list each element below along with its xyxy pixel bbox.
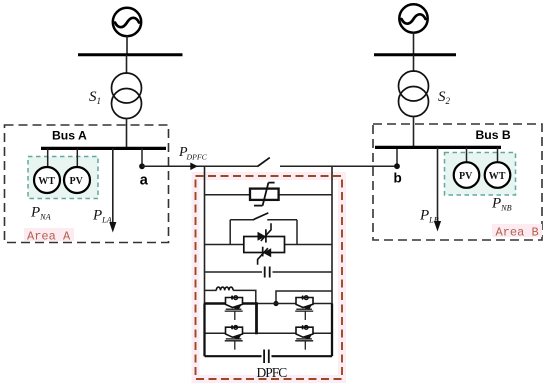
svg-text:b: b <box>394 171 402 186</box>
main wire a to switch <box>142 165 257 167</box>
bridge row2 wire <box>205 332 333 334</box>
wire T1 to Bus A <box>126 119 128 149</box>
node b dot <box>394 163 400 169</box>
series capacitor C1 <box>262 265 273 279</box>
bridge row1 wire <box>205 303 333 305</box>
wire G2 to bar <box>413 33 415 55</box>
IGBT Q2 <box>295 295 313 320</box>
node b stub <box>396 147 398 166</box>
svg-text:PV: PV <box>459 171 473 182</box>
svg-text:DPFC: DPFC <box>257 365 288 380</box>
DPFC right rail <box>331 166 333 304</box>
varistor RV <box>250 183 279 206</box>
load arrow P_LB <box>434 147 441 231</box>
wire to WT B <box>497 147 499 163</box>
right AC wire <box>276 291 332 304</box>
IGBT Q3 <box>225 325 243 350</box>
IGBT Q4 <box>295 325 313 350</box>
DPFC left rail <box>204 166 206 304</box>
renewables box B <box>445 153 516 196</box>
renewables box A <box>28 157 98 199</box>
load arrow P_LA <box>109 148 116 232</box>
Bus B bar <box>375 146 501 149</box>
svg-text:a: a <box>140 172 149 188</box>
bus bar top-left <box>78 53 183 56</box>
wire coil to mid bar <box>233 290 256 303</box>
label Area A <box>24 228 74 241</box>
bridge mid bar <box>255 302 258 334</box>
wire T2 to Bus B <box>413 117 415 148</box>
node a stub <box>141 148 143 166</box>
junction dot bridge <box>273 301 278 306</box>
svg-text:WT: WT <box>38 176 55 187</box>
PV source B <box>454 162 480 188</box>
svg-text:DPFC: DPFC <box>186 152 208 161</box>
node a dot <box>139 163 145 169</box>
svg-text:PV: PV <box>70 176 84 187</box>
wire to WT <box>47 148 49 167</box>
svg-text:Bus B: Bus B <box>476 128 511 142</box>
coil branch wire <box>205 289 217 291</box>
svg-text:Area A: Area A <box>27 230 71 244</box>
transformer T1 <box>112 73 142 119</box>
PV source <box>64 167 90 193</box>
thyristor branch wire <box>205 244 333 246</box>
label Area B <box>492 224 542 237</box>
bridge bottom rail <box>205 355 333 357</box>
DC capacitor C2 <box>262 350 272 364</box>
WT source B <box>485 162 511 188</box>
wire bar to T1 <box>126 55 128 74</box>
svg-text:WT: WT <box>489 171 506 182</box>
bypass switch SW <box>230 213 297 245</box>
bridge right vertical <box>331 304 333 357</box>
varistor branch wire <box>205 194 333 196</box>
wire bar to T2 <box>413 55 415 72</box>
transformer T2 <box>399 71 429 117</box>
thyristor top <box>258 223 272 242</box>
generator G1 <box>113 8 141 36</box>
capacitor branch wire <box>205 271 333 273</box>
DPFC red dashed box <box>196 176 343 379</box>
Area B dashed box <box>373 124 542 240</box>
IGBT Q1 <box>225 295 243 320</box>
line arrow P_DPFC <box>190 163 198 171</box>
bridge row1 thick segment <box>205 302 258 304</box>
svg-text:Area B: Area B <box>496 226 539 240</box>
generator G2 <box>399 4 427 32</box>
wire G1 to bar <box>126 36 128 55</box>
wire to PV <box>76 148 78 167</box>
thyristor bottom <box>258 247 272 265</box>
svg-text:Bus A: Bus A <box>52 129 87 143</box>
Bus A bar <box>41 147 166 150</box>
bus bar top-right <box>374 53 456 56</box>
main wire switch to b <box>280 165 397 167</box>
Area A dashed box <box>5 125 169 243</box>
wire to PV B <box>466 147 468 163</box>
inductor L1 <box>216 287 233 290</box>
bridge left vertical <box>203 304 205 357</box>
thyristor valve box <box>244 237 285 253</box>
WT source <box>34 167 60 193</box>
DPFC pink halo <box>196 176 343 379</box>
switch blade <box>257 158 269 167</box>
